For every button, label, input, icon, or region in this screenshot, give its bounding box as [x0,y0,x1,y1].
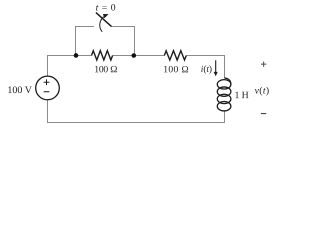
wire switch branch right stub [111,25,135,27]
inductor L1 loop 1 [217,80,231,89]
inductor L1 loop 4 [217,102,231,111]
wire right branch upper [223,55,225,78]
inductor L1 loop 3 [217,94,231,103]
wire left branch upper [46,55,48,76]
svg-text:100 Ω: 100 Ω [94,64,117,75]
svg-text:100 Ω: 100 Ω [163,64,188,75]
wire switch branch left stub [75,25,94,27]
wire between resistors [113,54,165,56]
node A junction dot left [74,53,79,58]
label minus polarity [261,113,266,115]
switch S1 motion arrow arc [100,16,105,31]
svg-text:i(t): i(t) [201,64,212,75]
current arrow i(t) line [215,60,217,72]
wire switch branch left vertical [75,26,77,56]
inductor L1 top hook [224,78,231,84]
current arrow i(t) head [214,72,218,76]
switch S1 blade [96,13,112,27]
svg-text:v(t): v(t) [255,85,270,96]
wire bottom [47,121,224,123]
voltage source V1 circle [36,76,60,100]
svg-text:1 H: 1 H [234,90,248,101]
resistor R1 zigzag [92,51,113,60]
node B junction dot right [132,53,137,58]
svg-text:t = 0: t = 0 [96,2,116,13]
voltage source V1 minus [44,91,50,93]
wire left branch lower [46,100,48,123]
wire switch branch right vertical [134,26,136,56]
inductor L1 loop 2 [217,87,231,96]
wire top left segment [48,54,92,56]
resistor R2 zigzag [164,51,186,60]
wire right branch lower [223,111,225,123]
switch S1 arrowhead [103,14,109,18]
label plus polarity [261,61,266,66]
voltage source V1 plus [44,79,50,85]
svg-text:100 V: 100 V [7,85,32,96]
wire top right segment [186,55,224,57]
